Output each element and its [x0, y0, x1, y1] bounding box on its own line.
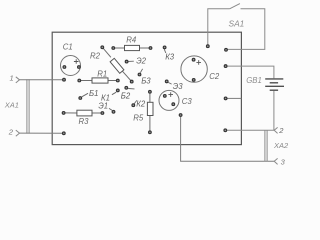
svg-text:GB1: GB1: [246, 76, 262, 85]
pad C3 bottom: [172, 103, 175, 106]
svg-text:Б2: Б2: [121, 92, 131, 101]
pad C2 top: [192, 58, 195, 61]
XA1 pin 1 chevron: [16, 77, 20, 83]
XA2 bar 2: [266, 130, 268, 161]
pad B1: [79, 97, 82, 100]
resistor R5 (vertical): [149, 92, 151, 103]
pad R4 right: [149, 47, 152, 50]
svg-text:Э1: Э1: [98, 102, 108, 111]
XA2 pin 3 chevron: [274, 158, 277, 164]
pad K2: [132, 104, 135, 107]
pad SA1 left: [206, 45, 209, 48]
pad C1 left: [63, 66, 66, 69]
connector XA2: [265, 127, 278, 164]
connector XA1: [16, 77, 29, 137]
node K3: [164, 49, 166, 53]
svg-text:3: 3: [281, 158, 286, 167]
capacitor C3: [159, 90, 179, 110]
pad K1: [116, 89, 119, 92]
XA2 bar 1: [264, 130, 266, 161]
node B2: [128, 88, 134, 90]
node K2: [134, 100, 137, 103]
board outline: [52, 32, 241, 144]
svg-text:R2: R2: [90, 52, 101, 61]
XA1 bar 1: [26, 79, 28, 133]
svg-text:C2: C2: [209, 72, 220, 81]
pad R4 left: [112, 47, 115, 50]
pad E3: [165, 80, 168, 83]
svg-text:Б1: Б1: [89, 89, 98, 98]
wire XA1 pin2 to board: [20, 132, 63, 134]
svg-text:R3: R3: [79, 117, 90, 126]
pad R1 left: [78, 79, 81, 82]
svg-text:XA1: XA1: [4, 101, 19, 110]
svg-text:К3: К3: [165, 53, 175, 62]
pad XA1-1 wire end: [63, 78, 66, 81]
pad C3 left: [163, 95, 166, 98]
svg-text:SA1: SA1: [229, 19, 245, 29]
svg-text:2: 2: [278, 126, 284, 135]
pad E1: [112, 110, 115, 113]
capacitor C2: [181, 56, 207, 82]
wire XA1 pin1 to board: [20, 79, 64, 81]
svg-text:R4: R4: [126, 35, 137, 44]
svg-text:Э2: Э2: [136, 56, 146, 65]
wire right pad 3 to XA2 pin 2: [227, 129, 275, 131]
svg-text:C3: C3: [182, 97, 193, 106]
XA2 pin 2 chevron: [274, 127, 277, 133]
pad XA1-2 wire end: [62, 132, 65, 135]
svg-text:Э3: Э3: [173, 82, 183, 91]
node E2: [128, 60, 133, 62]
svg-text:C1: C1: [63, 43, 73, 52]
pad R5 top: [149, 90, 152, 93]
battery GB1: [273, 91, 275, 130]
wire right pad 1 to battery rail: [227, 66, 274, 78]
pad R3 left: [62, 112, 65, 115]
pad right column 3: [224, 129, 227, 132]
pad B3: [138, 73, 141, 76]
solder pads: [62, 45, 227, 135]
pad R2 bottom: [130, 80, 133, 83]
resistor R1: [79, 80, 92, 82]
node K1: [112, 92, 116, 95]
XA1 pin 2 chevron: [16, 130, 20, 136]
pad SA1 right: [225, 48, 228, 51]
pad R3 right: [101, 112, 104, 115]
resistor R2 (diagonal): [103, 48, 111, 57]
switch SA1 loop: [208, 9, 230, 45]
XA1 bar 2: [28, 79, 30, 133]
pad right column 2: [224, 97, 227, 100]
svg-text:2: 2: [8, 128, 14, 137]
svg-text:1: 1: [10, 73, 14, 82]
node E1: [109, 108, 112, 110]
pad R2 top: [101, 46, 104, 49]
pad C1 right: [78, 66, 81, 69]
node B3: [140, 69, 142, 73]
pad B2: [125, 86, 128, 89]
pad C2 bottom: [192, 79, 195, 82]
node E3: [168, 83, 171, 85]
pad R5 bottom: [149, 131, 152, 134]
pad K3: [163, 46, 166, 49]
pad C3 output: [179, 114, 182, 117]
node B1: [82, 93, 88, 96]
wire C3 pad down to bottom: [181, 116, 275, 161]
resistor R4: [113, 47, 124, 49]
switch SA1 lever: [230, 4, 240, 9]
pad right column 1: [224, 65, 227, 68]
svg-text:R5: R5: [133, 114, 144, 123]
wire right pad 2 to board edge: [227, 97, 241, 99]
svg-text:XA2: XA2: [273, 141, 289, 150]
svg-text:Б3: Б3: [141, 76, 151, 85]
resistor R3: [64, 112, 77, 114]
svg-text:R1: R1: [97, 70, 107, 79]
svg-text:К2: К2: [136, 99, 146, 108]
capacitor C1: [61, 56, 81, 76]
pad E2: [125, 60, 128, 63]
pad R1 right: [116, 79, 119, 82]
